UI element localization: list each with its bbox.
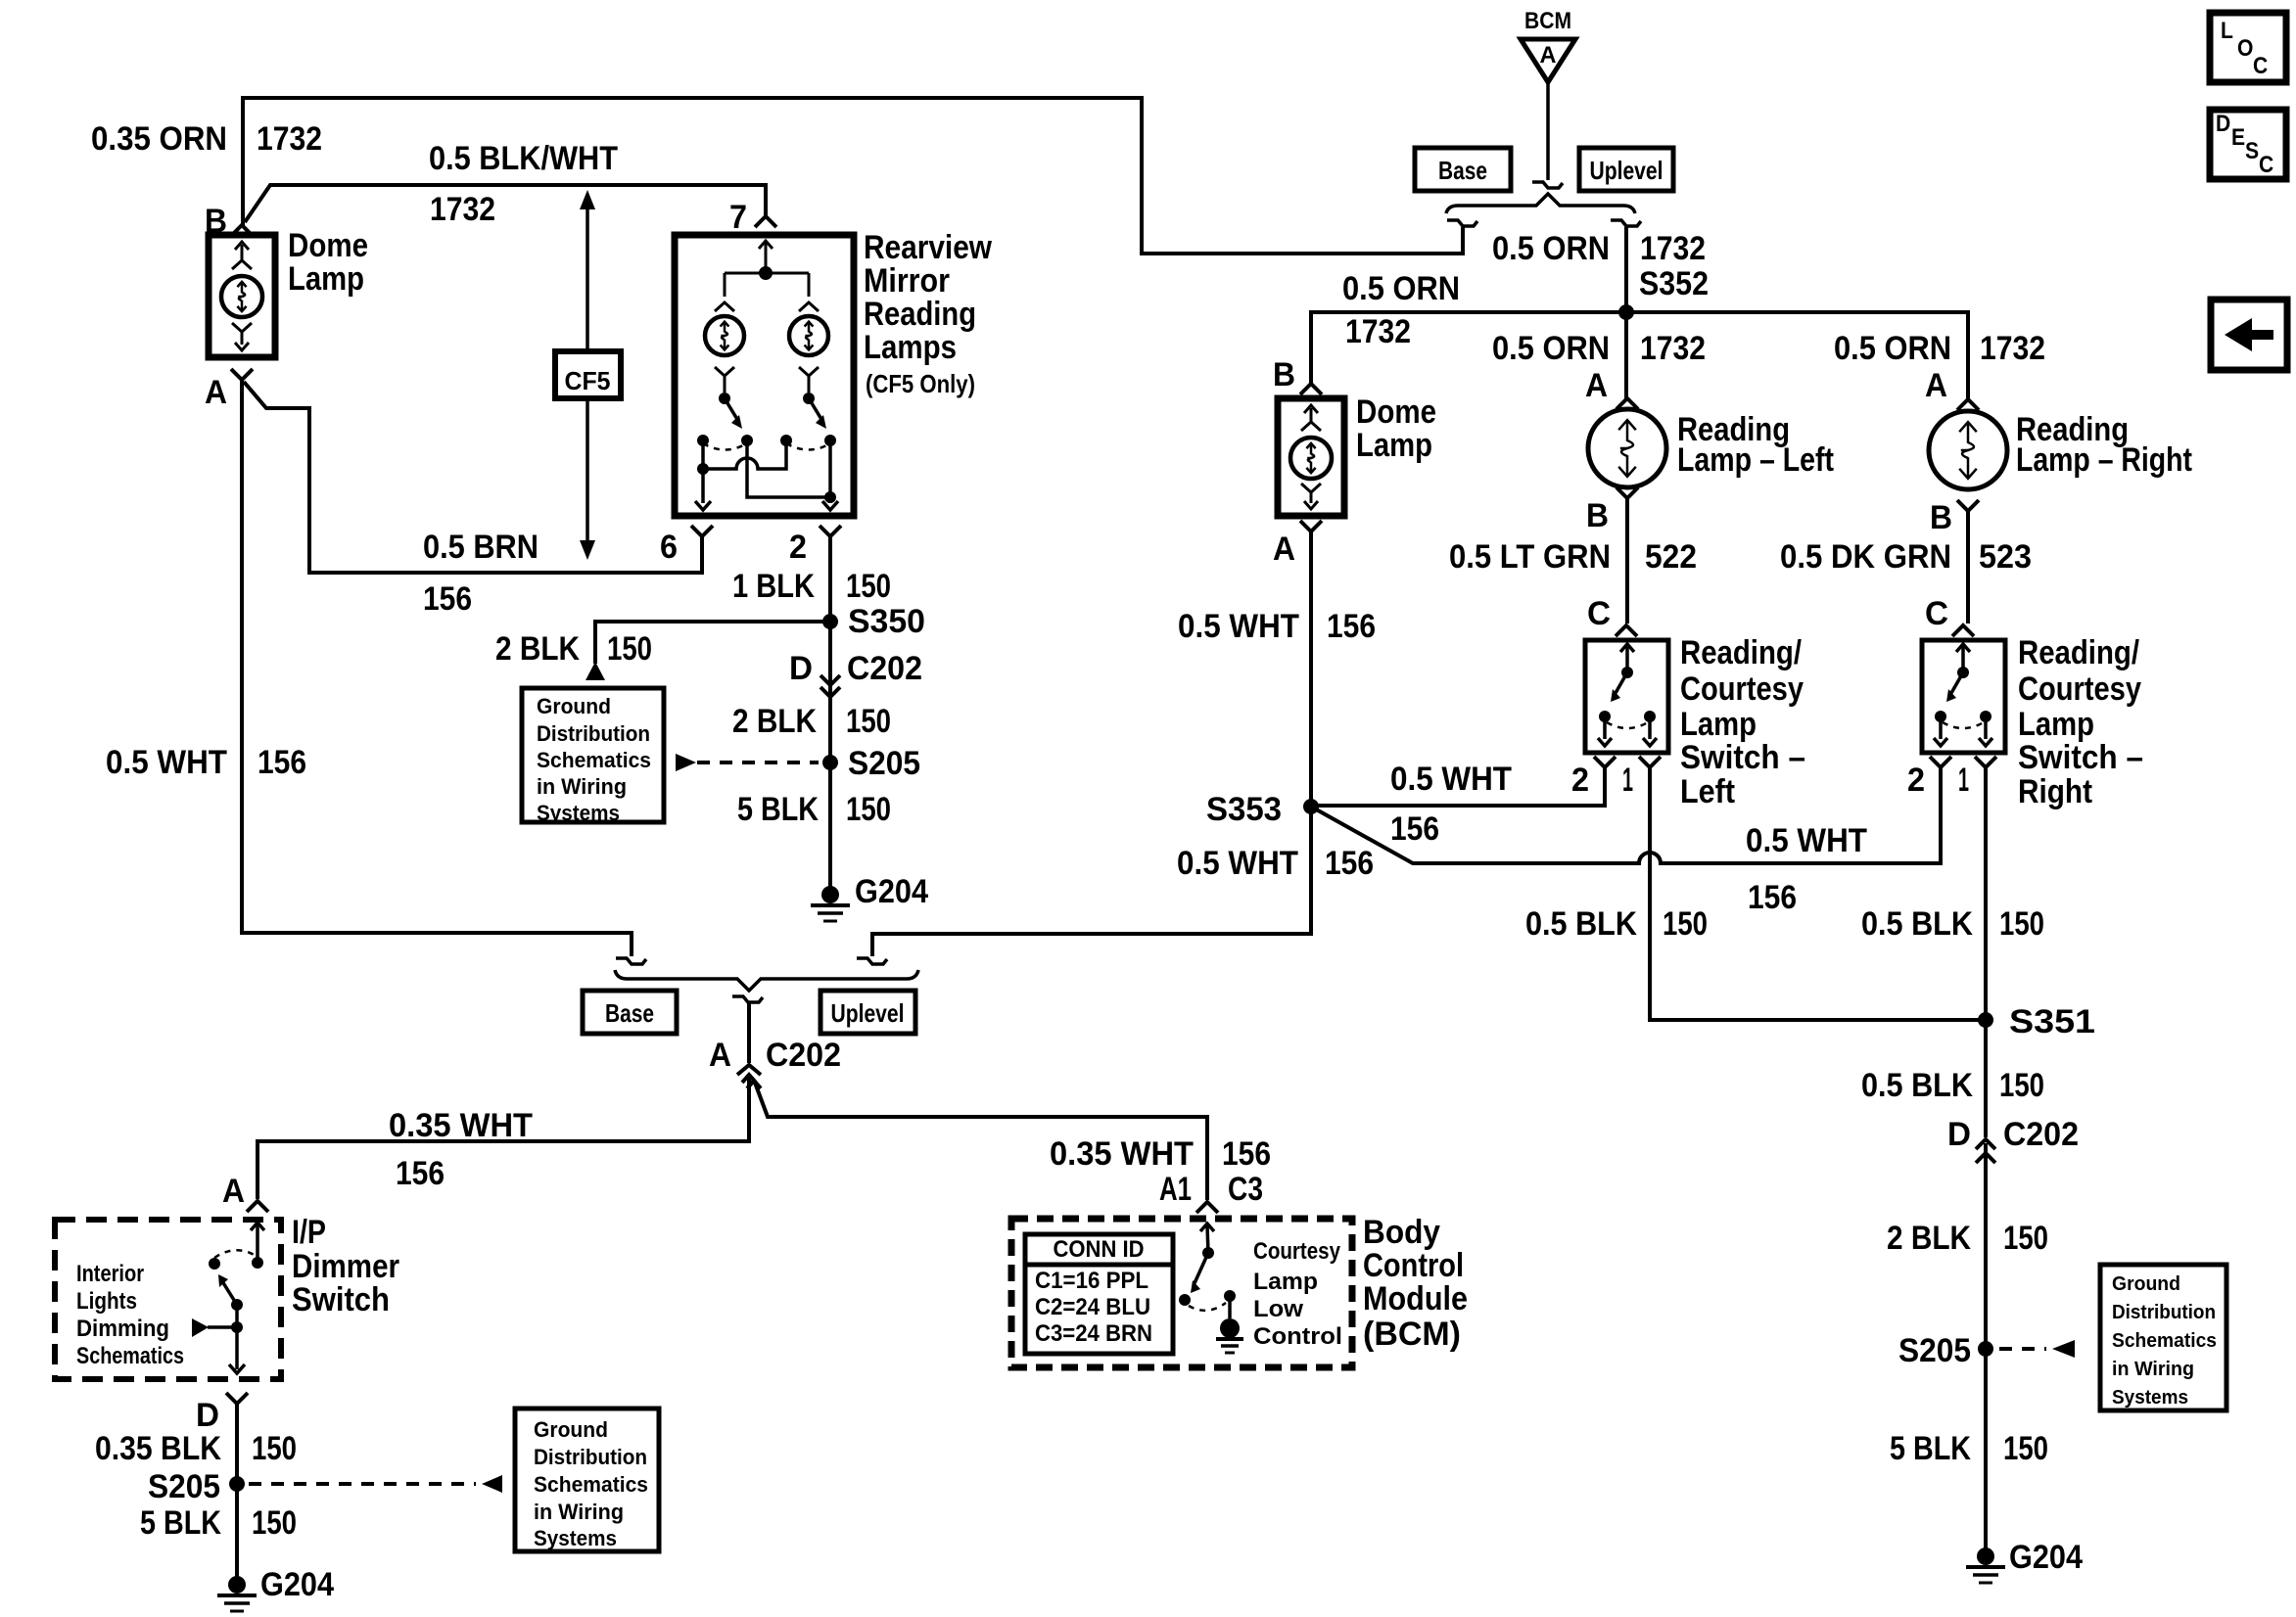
rearview mirror reading lamps - pin 7 connector bbox=[755, 216, 776, 227]
svg-text:523: 523 bbox=[1979, 538, 2032, 576]
svg-text:in Wiring: in Wiring bbox=[2112, 1359, 2194, 1380]
svg-text:C3: C3 bbox=[1228, 1171, 1263, 1208]
ground G204 (bottom right) bbox=[1977, 1548, 1994, 1565]
mirror switch left output wire to pin 6 bbox=[701, 440, 705, 503]
svg-text:A: A bbox=[1585, 367, 1608, 404]
svg-text:(BCM): (BCM) bbox=[1363, 1316, 1461, 1353]
BCM connector A1/C3 bbox=[1196, 1202, 1218, 1213]
dome lamp left internals bbox=[241, 245, 244, 260]
switch left internals bbox=[1620, 644, 1634, 652]
svg-text:0.5 BRN: 0.5 BRN bbox=[423, 529, 539, 566]
svg-text:A1: A1 bbox=[1159, 1171, 1192, 1208]
svg-text:L: L bbox=[2221, 18, 2233, 44]
mirror lamps pin 6 connector bbox=[691, 526, 713, 536]
wire 0.5 WHT 156 S353 to switch right pin 2 with hop bbox=[1311, 767, 1941, 863]
svg-text:1732: 1732 bbox=[1980, 330, 2045, 367]
svg-text:156: 156 bbox=[1222, 1135, 1271, 1173]
svg-text:D: D bbox=[2216, 111, 2230, 137]
mirror lamp right switch bbox=[803, 393, 815, 404]
svg-text:1 BLK: 1 BLK bbox=[732, 568, 815, 605]
splice S353 bbox=[1303, 799, 1319, 814]
svg-text:S205: S205 bbox=[1898, 1332, 1971, 1369]
svg-text:1732: 1732 bbox=[1640, 230, 1706, 267]
dome lamp left - pin B connector bbox=[231, 225, 253, 236]
svg-text:Schematics: Schematics bbox=[2112, 1330, 2217, 1352]
wire-break squiggle under BCM stem bbox=[1532, 182, 1563, 188]
wire 5 BLK 150 S205 to G204 (bottom right) bbox=[1984, 1349, 1988, 1556]
wire 2 BLK 150 S350 to S205 bbox=[828, 622, 832, 762]
svg-text:Distribution: Distribution bbox=[537, 721, 650, 746]
dimmer switch output arrow to pin D bbox=[235, 1327, 239, 1369]
svg-text:Lamp – Right: Lamp – Right bbox=[2016, 441, 2192, 479]
dimmer switch pivot bbox=[231, 1299, 243, 1311]
svg-text:150: 150 bbox=[1999, 1067, 2044, 1104]
wire 5 BLK 150 S205 to G204 (bottom left) bbox=[235, 1484, 239, 1585]
svg-text:Lamp – Left: Lamp – Left bbox=[1677, 441, 1834, 479]
ground distribution schematics box (mid) bbox=[522, 688, 664, 822]
switch left pin 1 connector bbox=[1639, 757, 1661, 767]
svg-text:Uplevel: Uplevel bbox=[831, 998, 905, 1028]
rearview mirror reading lamps box bbox=[675, 235, 854, 516]
wire 0.35 ORN 1732 from dome lamp B to BCM breakout (net 1732) bbox=[243, 98, 1463, 254]
interior lights dimming reference arrow bbox=[192, 1318, 209, 1337]
svg-text:0.5 DK GRN: 0.5 DK GRN bbox=[1780, 538, 1951, 576]
switch right pin 2 connector bbox=[1930, 757, 1951, 767]
svg-text:C1=16 PPL: C1=16 PPL bbox=[1035, 1268, 1148, 1294]
svg-text:2: 2 bbox=[1907, 762, 1925, 799]
svg-text:C202: C202 bbox=[847, 650, 922, 687]
svg-text:D: D bbox=[789, 650, 813, 687]
svg-text:5 BLK: 5 BLK bbox=[1890, 1430, 1971, 1467]
svg-text:2 BLK: 2 BLK bbox=[1887, 1220, 1971, 1257]
ground G204 (mid) bbox=[821, 886, 839, 903]
svg-text:5 BLK: 5 BLK bbox=[737, 791, 819, 828]
svg-text:0.5 BLK: 0.5 BLK bbox=[1861, 905, 1973, 943]
CF5 option double arrow bbox=[586, 200, 589, 550]
svg-text:7: 7 bbox=[729, 199, 747, 236]
svg-text:Schematics: Schematics bbox=[534, 1472, 648, 1497]
svg-text:S353: S353 bbox=[1206, 791, 1282, 828]
svg-text:Schematics: Schematics bbox=[537, 748, 651, 772]
svg-text:Systems: Systems bbox=[537, 801, 620, 825]
svg-text:0.5 WHT: 0.5 WHT bbox=[1178, 608, 1299, 645]
CONN ID table bbox=[1025, 1234, 1173, 1354]
svg-text:0.35 WHT: 0.35 WHT bbox=[1050, 1135, 1194, 1173]
svg-text:Distribution: Distribution bbox=[2112, 1302, 2216, 1323]
svg-text:0.5 WHT: 0.5 WHT bbox=[1390, 761, 1512, 798]
svg-text:Control: Control bbox=[1363, 1247, 1464, 1284]
svg-text:Body: Body bbox=[1363, 1214, 1440, 1251]
svg-text:D: D bbox=[196, 1397, 219, 1434]
wire 0.5 ORN bus to reading lamps bbox=[1626, 312, 1968, 399]
wire 0.5 BLK 150 switch right pin 1 down bbox=[1984, 767, 1988, 1020]
svg-text:S205: S205 bbox=[848, 745, 920, 782]
ground G204 (bottom left) bbox=[228, 1576, 246, 1594]
Uplevel box (top) bbox=[1579, 148, 1673, 191]
svg-text:in Wiring: in Wiring bbox=[537, 774, 627, 799]
mirror switch crossover wire with hop bbox=[703, 440, 786, 469]
I/P dimmer switch pin D connector bbox=[226, 1393, 248, 1404]
ground distribution schematics box (bottom left) bbox=[515, 1409, 659, 1551]
svg-text:C202: C202 bbox=[766, 1037, 841, 1074]
svg-text:Base: Base bbox=[605, 998, 654, 1028]
svg-text:A: A bbox=[222, 1173, 245, 1210]
svg-text:1732: 1732 bbox=[1345, 313, 1411, 350]
reading lamp right pin B connector bbox=[1957, 500, 1979, 511]
mirror lamp left branch bbox=[724, 273, 726, 297]
svg-text:S350: S350 bbox=[848, 603, 925, 640]
svg-text:150: 150 bbox=[1663, 905, 1708, 943]
wire-break squiggle at C202 breakout right bbox=[857, 958, 887, 964]
svg-text:A: A bbox=[205, 374, 227, 411]
Base box (top) bbox=[1415, 148, 1511, 191]
mirror switch right output wire to pin 2 bbox=[828, 440, 832, 503]
svg-text:0.5 BLK/WHT: 0.5 BLK/WHT bbox=[429, 140, 618, 177]
Uplevel box (bottom) bbox=[820, 991, 915, 1034]
BCM stem wire bbox=[1546, 82, 1550, 180]
svg-text:Base: Base bbox=[1438, 156, 1487, 185]
svg-text:in Wiring: in Wiring bbox=[534, 1500, 624, 1524]
mirror lamps pin 2 connector bbox=[820, 526, 841, 536]
svg-text:Dome: Dome bbox=[288, 227, 368, 264]
svg-text:150: 150 bbox=[846, 568, 891, 605]
svg-text:Low: Low bbox=[1253, 1296, 1303, 1322]
I/P dimmer switch dashed box bbox=[55, 1220, 281, 1379]
svg-text:Dimming: Dimming bbox=[76, 1316, 169, 1342]
wire 2 BLK 150 stub from S350 with up-triangle bbox=[595, 622, 830, 664]
svg-text:C202: C202 bbox=[2003, 1116, 2079, 1153]
svg-text:156: 156 bbox=[396, 1155, 445, 1192]
wire 0.5 WHT 156 S353 to switch left pin 2 bbox=[1311, 767, 1605, 806]
svg-text:1: 1 bbox=[1622, 762, 1633, 799]
svg-text:156: 156 bbox=[1390, 810, 1439, 848]
svg-text:Courtesy: Courtesy bbox=[1680, 670, 1804, 708]
reading lamp right pin A connector bbox=[1957, 399, 1979, 410]
reading lamp left bulb bbox=[1588, 409, 1666, 487]
dashed reference line to ground distribution box (bottom left) bbox=[249, 1482, 476, 1486]
svg-text:S: S bbox=[2245, 138, 2259, 164]
svg-text:C: C bbox=[2253, 53, 2268, 79]
DESC legend box bbox=[2210, 110, 2286, 179]
reading lamp right bulb bbox=[1929, 411, 2007, 489]
wire-break squiggle above C202 A stem bbox=[732, 996, 763, 1002]
reading lamp left pin A connector bbox=[1617, 398, 1638, 409]
mirror switch dashed contact arcs bbox=[703, 443, 747, 450]
wire 0.5 BLK 150 switch left pin 1 to S351 bbox=[1650, 767, 1986, 1020]
svg-text:0.5 BLK: 0.5 BLK bbox=[1525, 905, 1637, 943]
svg-text:Mirror: Mirror bbox=[864, 262, 950, 300]
svg-text:Lamp: Lamp bbox=[1253, 1269, 1318, 1295]
svg-text:0.5 WHT: 0.5 WHT bbox=[106, 744, 227, 781]
connector C202 pin D (bottom right) bbox=[1976, 1139, 1995, 1149]
svg-text:156: 156 bbox=[1748, 879, 1797, 916]
brace under Base/Uplevel (top) bbox=[1446, 194, 1635, 213]
svg-text:C2=24 BLU: C2=24 BLU bbox=[1035, 1294, 1150, 1320]
ground distribution schematics box (bottom right) bbox=[2100, 1265, 2226, 1410]
svg-text:150: 150 bbox=[252, 1430, 297, 1467]
svg-text:A: A bbox=[1925, 367, 1947, 404]
svg-text:Reading: Reading bbox=[864, 296, 976, 333]
svg-text:0.5 LT GRN: 0.5 LT GRN bbox=[1449, 538, 1611, 576]
svg-text:Courtesy: Courtesy bbox=[1253, 1238, 1341, 1265]
svg-text:0.5 WHT: 0.5 WHT bbox=[1746, 822, 1867, 859]
wire 0.5 ORN 1732 bus to dome lamp right B bbox=[1311, 312, 1626, 384]
svg-text:G204: G204 bbox=[2009, 1539, 2083, 1576]
svg-text:Lamp: Lamp bbox=[2018, 706, 2094, 743]
dimmer switch right contact bbox=[252, 1257, 263, 1269]
dome lamp left box bbox=[209, 235, 275, 357]
svg-text:Rearview: Rearview bbox=[864, 229, 992, 266]
splice S351 bbox=[1978, 1012, 1993, 1028]
svg-text:Reading/: Reading/ bbox=[1680, 634, 1802, 671]
wire 0.5 BLK/WHT 1732 dome lamp B to rearview mirror lamps pin 7 bbox=[245, 185, 766, 222]
svg-text:Distribution: Distribution bbox=[534, 1445, 647, 1469]
splice S205 (mid) bbox=[822, 755, 838, 770]
svg-text:6: 6 bbox=[660, 529, 678, 566]
svg-text:1732: 1732 bbox=[1640, 330, 1706, 367]
BCM dashed box bbox=[1011, 1219, 1352, 1367]
mirror switch inner-left to pin 2 wire bbox=[747, 440, 830, 497]
svg-text:Ground: Ground bbox=[534, 1417, 608, 1442]
wire 0.5 BLK 150 S351 to C202 D bbox=[1984, 1020, 1988, 1137]
svg-text:Dome: Dome bbox=[1356, 393, 1436, 431]
wire-break squiggle at BCM base breakout left bbox=[1447, 220, 1477, 226]
connector C202 pin D (mid) bbox=[820, 675, 840, 685]
dimmer switch input arrow bbox=[251, 1223, 264, 1230]
svg-text:156: 156 bbox=[1325, 845, 1374, 882]
svg-text:Schematics: Schematics bbox=[76, 1343, 184, 1369]
reading/courtesy lamp switch left pin C connector bbox=[1616, 625, 1637, 636]
wire 0.5 WHT 156 dome lamp A down to C202 breakout bbox=[242, 380, 632, 956]
svg-text:Control: Control bbox=[1253, 1323, 1342, 1350]
svg-text:B: B bbox=[1586, 497, 1609, 534]
wire 0.5 DK GRN 523 lamp B to switch C bbox=[1966, 511, 1970, 624]
dome lamp right internals bbox=[1310, 408, 1313, 422]
svg-text:S352: S352 bbox=[1639, 265, 1709, 302]
wire 0.5 LT GRN 522 lamp B to switch C bbox=[1625, 498, 1629, 624]
wire 0.35 BLK 150 dimmer D to S205 bbox=[235, 1404, 239, 1484]
svg-text:156: 156 bbox=[1327, 608, 1376, 645]
reading/courtesy lamp switch right box bbox=[1922, 640, 2005, 753]
wire 0.35 WHT 156 from C202 A to BCM A1 bbox=[747, 1081, 761, 1088]
svg-text:1732: 1732 bbox=[430, 191, 495, 228]
svg-text:2: 2 bbox=[789, 529, 807, 566]
svg-text:C: C bbox=[1587, 595, 1611, 632]
svg-text:CONN ID: CONN ID bbox=[1054, 1236, 1145, 1263]
svg-text:Left: Left bbox=[1680, 773, 1735, 810]
svg-text:2 BLK: 2 BLK bbox=[732, 703, 817, 740]
wire 5 BLK 150 S205 to G204 bbox=[828, 762, 832, 895]
svg-text:Courtesy: Courtesy bbox=[2018, 670, 2141, 708]
wire 0.5 WHT below S353 to C202 breakout bbox=[872, 807, 1311, 956]
svg-text:Systems: Systems bbox=[2112, 1387, 2188, 1409]
CF5 box bbox=[555, 351, 621, 398]
BCM courtesy lamp low control switch bbox=[1200, 1224, 1214, 1231]
LOC legend box bbox=[2210, 13, 2286, 82]
Base box (bottom) bbox=[583, 991, 677, 1034]
svg-text:522: 522 bbox=[1645, 538, 1697, 576]
svg-text:CF5: CF5 bbox=[565, 366, 611, 395]
svg-text:Module: Module bbox=[1363, 1280, 1468, 1317]
svg-text:O: O bbox=[2237, 35, 2253, 62]
reading lamp left pin B connector bbox=[1617, 487, 1638, 498]
switch left pin 2 connector bbox=[1594, 757, 1616, 767]
wire 2 BLK 150 to S205 (bottom right) bbox=[1984, 1143, 1988, 1349]
C202 A stem bbox=[747, 1003, 751, 1063]
I/P dimmer switch pin A connector bbox=[247, 1201, 268, 1212]
splice S205 (bottom right) bbox=[1978, 1341, 1993, 1357]
svg-text:Uplevel: Uplevel bbox=[1590, 156, 1663, 185]
wire 0.5 ORN 1732 from breakout to S352 bbox=[1624, 227, 1628, 312]
wire 0.5 ORN down to reading lamp left bbox=[1624, 312, 1628, 398]
svg-text:0.35 BLK: 0.35 BLK bbox=[95, 1430, 221, 1467]
svg-text:150: 150 bbox=[2003, 1430, 2048, 1467]
svg-text:Interior: Interior bbox=[76, 1261, 144, 1287]
svg-text:(CF5 Only): (CF5 Only) bbox=[866, 369, 975, 398]
svg-text:156: 156 bbox=[423, 580, 472, 618]
svg-text:1732: 1732 bbox=[257, 120, 322, 158]
mirror lamp right branch bbox=[808, 273, 811, 297]
switch right pin 1 connector bbox=[1975, 757, 1996, 767]
svg-text:Ground: Ground bbox=[537, 694, 611, 718]
svg-text:Dimmer: Dimmer bbox=[292, 1248, 399, 1285]
svg-text:Reading/: Reading/ bbox=[2018, 634, 2139, 671]
svg-text:150: 150 bbox=[2003, 1220, 2048, 1257]
dashed reference line to ground distribution box (mid) bbox=[697, 761, 819, 764]
svg-text:0.5 ORN: 0.5 ORN bbox=[1342, 270, 1460, 307]
svg-text:A: A bbox=[1540, 42, 1557, 69]
wire 0.5 WHT 156 dome right A to S353 bbox=[1309, 531, 1313, 807]
splice S205 (bottom left) bbox=[229, 1476, 245, 1492]
BCM internal ground bbox=[1220, 1318, 1240, 1338]
svg-text:Lamp: Lamp bbox=[1356, 427, 1432, 464]
dimmer switch arm bbox=[222, 1281, 237, 1305]
svg-text:156: 156 bbox=[258, 744, 306, 781]
svg-text:C: C bbox=[1925, 595, 1948, 632]
svg-text:0.5 BLK: 0.5 BLK bbox=[1861, 1067, 1973, 1104]
dome lamp right box bbox=[1278, 398, 1344, 516]
svg-text:0.5 ORN: 0.5 ORN bbox=[1492, 330, 1610, 367]
svg-text:0.5 ORN: 0.5 ORN bbox=[1492, 230, 1610, 267]
svg-text:S205: S205 bbox=[148, 1468, 220, 1505]
svg-text:S351: S351 bbox=[2009, 1003, 2095, 1040]
dashed reference line to ground distribution box (bottom right) bbox=[1999, 1347, 2046, 1351]
svg-text:C: C bbox=[2259, 152, 2273, 178]
dome lamp right pin B connector bbox=[1300, 384, 1322, 394]
back arrow box bbox=[2211, 300, 2287, 370]
svg-text:Lamp: Lamp bbox=[288, 260, 364, 298]
svg-text:1: 1 bbox=[1958, 762, 1969, 799]
switch right internals bbox=[1956, 644, 1970, 652]
svg-text:I/P: I/P bbox=[292, 1214, 326, 1251]
svg-text:150: 150 bbox=[846, 791, 891, 828]
connector C202 pin A (bottom) bbox=[737, 1065, 761, 1075]
svg-text:G204: G204 bbox=[260, 1566, 334, 1603]
svg-text:A: A bbox=[709, 1037, 731, 1074]
svg-text:BCM: BCM bbox=[1524, 8, 1571, 34]
svg-text:Switch: Switch bbox=[292, 1281, 390, 1318]
svg-text:B: B bbox=[1930, 499, 1952, 536]
wire-break squiggle right breakout (top) bbox=[1611, 220, 1641, 226]
svg-text:150: 150 bbox=[252, 1504, 297, 1542]
dimmer switch left contact bbox=[209, 1258, 220, 1270]
wire 0.35 WHT 156 from C202 A to I/P dimmer switch bbox=[742, 1075, 756, 1083]
mirror lamps internal feed bbox=[759, 241, 773, 249]
brace and breakout to C202 connector A (bottom) bbox=[615, 970, 918, 991]
dimmer wiper junction bbox=[231, 1321, 243, 1333]
mirror lamp left switch bbox=[719, 393, 730, 404]
svg-text:E: E bbox=[2231, 124, 2245, 151]
svg-text:A: A bbox=[1273, 531, 1295, 568]
mirror switch contacts bbox=[697, 435, 709, 446]
dome lamp left - pin A connector bbox=[231, 369, 253, 380]
svg-text:0.5 ORN: 0.5 ORN bbox=[1834, 330, 1951, 367]
svg-text:Lamps: Lamps bbox=[864, 329, 957, 366]
svg-text:Switch –: Switch – bbox=[2018, 739, 2143, 776]
svg-text:C3=24 BRN: C3=24 BRN bbox=[1035, 1320, 1152, 1347]
dome lamp right pin A connector bbox=[1300, 521, 1322, 531]
svg-text:B: B bbox=[1273, 356, 1295, 393]
svg-text:150: 150 bbox=[846, 703, 891, 740]
wire 0.5 BRN 156 dome lamp A to mirror lamps pin 6 bbox=[244, 382, 702, 573]
svg-text:Lights: Lights bbox=[76, 1288, 137, 1315]
svg-text:0.5 WHT: 0.5 WHT bbox=[1177, 845, 1298, 882]
svg-text:150: 150 bbox=[607, 630, 652, 668]
svg-text:0.35 WHT: 0.35 WHT bbox=[389, 1107, 533, 1144]
svg-text:Ground: Ground bbox=[2112, 1273, 2180, 1295]
svg-text:Lamp: Lamp bbox=[1680, 706, 1757, 743]
svg-text:D: D bbox=[1947, 1116, 1971, 1153]
splice S352 bbox=[1618, 304, 1634, 320]
splice S350 bbox=[822, 614, 838, 629]
svg-text:2: 2 bbox=[1571, 762, 1589, 799]
svg-text:5 BLK: 5 BLK bbox=[140, 1504, 221, 1542]
svg-text:0.35 ORN: 0.35 ORN bbox=[91, 120, 227, 158]
svg-text:Switch –: Switch – bbox=[1680, 739, 1805, 776]
wire 1 BLK 150 pin 2 down to S350 bbox=[828, 536, 832, 622]
svg-text:Systems: Systems bbox=[534, 1526, 617, 1550]
wire-break squiggle at C202 base breakout left bbox=[616, 958, 646, 964]
svg-text:G204: G204 bbox=[855, 873, 928, 910]
dimmer switch dashed arc bbox=[214, 1250, 258, 1258]
svg-text:2 BLK: 2 BLK bbox=[495, 630, 580, 668]
reading/courtesy lamp switch right pin C connector bbox=[1952, 625, 1974, 636]
svg-text:150: 150 bbox=[1999, 905, 2044, 943]
BCM fuse triangle reference bbox=[1521, 39, 1575, 82]
reading/courtesy lamp switch left box bbox=[1585, 640, 1668, 753]
svg-text:Right: Right bbox=[2018, 773, 2092, 810]
